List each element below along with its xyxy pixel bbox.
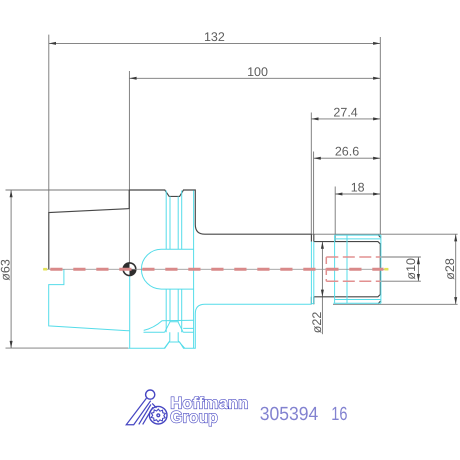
section internal: plug trapezoid (144, 322, 194, 349)
centerline red dashes (50, 268, 383, 271)
dimension 18 (335, 180, 380, 241)
part outline lower: groove mirror stubs (311, 297, 313, 305)
svg-text:ø28: ø28 (443, 258, 457, 280)
svg-text:18: 18 (351, 180, 365, 194)
centerline gray underlay (43, 268, 388, 270)
svg-text:Group: Group (170, 408, 218, 426)
svg-text:305394: 305394 (260, 404, 319, 425)
dimension 26.6 (314, 145, 381, 235)
svg-text:132: 132 (204, 30, 225, 44)
svg-text:16: 16 (331, 404, 347, 425)
part outline: pocket corner chamfers right end (378, 235, 381, 304)
svg-text:27.4: 27.4 (333, 105, 357, 119)
section right: clamping pocket (333, 235, 381, 303)
svg-text:ø22: ø22 (310, 312, 324, 334)
svg-text:ø10: ø10 (404, 258, 418, 280)
svg-text:100: 100 (247, 65, 268, 79)
logo Hoffmann Group text (170, 395, 248, 427)
section lower: flange left face (129, 270, 131, 348)
part outline upper: relief groove at body end (311, 234, 313, 241)
section internal: groove edge verticals upper (166, 191, 193, 349)
section lower: bore slot dia16 with round end (141, 249, 193, 289)
svg-text:26.6: 26.6 (335, 145, 359, 159)
dimension 100 (129, 65, 380, 269)
dimension dia28 (311, 234, 457, 304)
part outline upper: dia22 pilot top and end face (314, 242, 381, 297)
section internal: cone and seat lines (144, 320, 194, 330)
centre symbol node (123, 263, 136, 276)
dimension 132 (49, 30, 381, 234)
centerline yellow end ticks (43, 268, 388, 271)
section internal: groove edge verticals lower (166, 289, 182, 332)
dimension dia10 (380, 257, 421, 281)
dimension dia22 (310, 242, 324, 335)
part outline upper: flange with V-groove (129, 190, 311, 234)
hidden bore dia10 dashed (326, 257, 380, 281)
article number 305394 16 (260, 404, 348, 425)
dimension dia63 (0, 190, 129, 348)
dimension 27.4 (311, 105, 380, 234)
section lower right: relief groove cyan (311, 242, 313, 304)
section lower: shank bore notch and taper mirror (49, 269, 130, 331)
logo Hoffmann Group icon (126, 390, 167, 425)
svg-text:ø63: ø63 (0, 259, 12, 281)
part outline upper: HSK shank taper (49, 190, 129, 269)
section lower: flange bottom with V-groove mirror (128, 304, 311, 348)
